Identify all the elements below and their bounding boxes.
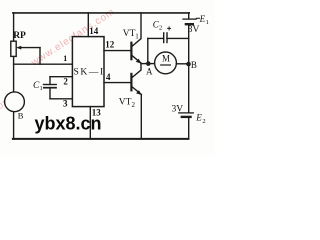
wire VT2 emitter down [140, 95, 142, 139]
transistor VT1 emitter arrowhead [136, 59, 142, 64]
wire RP wiper vertical [39, 48, 41, 65]
battery E1 dash [196, 17, 199, 19]
svg-text:A: A [146, 67, 153, 77]
svg-text:2: 2 [63, 76, 68, 86]
wire right rail mid [188, 24, 190, 112]
svg-text:B: B [191, 60, 197, 70]
transistor VT2 emitter [132, 87, 141, 95]
microphone B circle [5, 92, 25, 112]
svg-text:14: 14 [89, 26, 99, 36]
background paper [0, 0, 215, 156]
wire C2 right horizontal [167, 37, 189, 39]
transistor VT2 collector [132, 64, 141, 78]
node A junction dot [146, 61, 151, 66]
battery E1 short plate [186, 23, 193, 25]
motor M underline [161, 64, 171, 66]
wire pin2 [50, 76, 72, 78]
svg-text:1: 1 [40, 85, 43, 92]
transistor VT1 emitter [132, 55, 141, 63]
svg-text:4: 4 [106, 72, 111, 82]
svg-text:RP: RP [13, 31, 26, 41]
capacitor C2 plates [163, 33, 165, 43]
wire right rail bottom [188, 117, 190, 138]
wire right rail top [188, 13, 190, 19]
svg-text:1: 1 [206, 19, 209, 26]
wire pin1 horizontal [14, 63, 73, 65]
wire pin3 [50, 98, 72, 100]
wire left rail lower [13, 112, 15, 140]
svg-text:B: B [18, 111, 24, 121]
battery E1 long plate [183, 18, 196, 20]
svg-text:2: 2 [202, 118, 205, 125]
wire pin14 [87, 13, 89, 37]
svg-text:E: E [199, 14, 206, 24]
svg-text:M: M [162, 53, 170, 63]
wire node A horizontal [141, 63, 155, 65]
svg-text:ybx8.cn: ybx8.cn [35, 113, 102, 133]
wire bottom rail [13, 138, 189, 140]
wire left rail upper [13, 13, 15, 41]
svg-text:3V: 3V [188, 25, 200, 35]
svg-text:VT: VT [119, 98, 132, 108]
wire motor right [176, 63, 188, 65]
transistor VT2 base bar [130, 74, 132, 90]
svg-text:1: 1 [63, 54, 67, 63]
wire C2 left horizontal [148, 37, 164, 39]
svg-text:E: E [195, 113, 202, 123]
svg-text:2: 2 [132, 101, 136, 109]
battery E2 long plate [179, 112, 194, 114]
wire RP wiper horizontal [20, 47, 40, 49]
battery E2 short plate [182, 116, 191, 118]
svg-text:2: 2 [159, 25, 162, 32]
svg-text:SK—I: SK—I [74, 68, 105, 78]
wire pin13 [89, 107, 91, 139]
wire C2 left vertical [147, 38, 149, 63]
potentiometer RP body [11, 41, 16, 56]
svg-text:3: 3 [63, 98, 68, 108]
IC SK-I box [72, 37, 104, 107]
capacitor C2 polarity plus [168, 27, 171, 29]
wire left rail mid [13, 56, 15, 92]
capacitor C1 plates [44, 84, 57, 86]
transistor VT1 base bar [130, 43, 132, 60]
wire C1 bottom lead [49, 88, 51, 99]
node B junction dot [186, 62, 191, 67]
svg-text:12: 12 [105, 40, 115, 50]
transistor VT1 collector [132, 13, 141, 47]
motor M circle [155, 52, 177, 74]
svg-text:3V: 3V [172, 104, 184, 114]
svg-text:1: 1 [135, 33, 139, 41]
wire pin12 [104, 50, 131, 52]
wire pin4 [104, 82, 131, 84]
wire C1 top lead [49, 77, 51, 85]
wire top rail [13, 12, 189, 14]
svg-text:VT: VT [123, 29, 136, 39]
potentiometer RP wiper arrowhead [16, 46, 21, 50]
transistor VT2 emitter arrowhead [136, 90, 142, 95]
